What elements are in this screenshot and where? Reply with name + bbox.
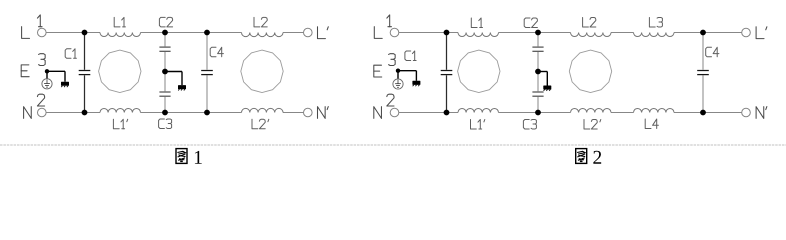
node: C4 top junction bbox=[204, 30, 210, 36]
inductor L4 bbox=[634, 108, 674, 112]
terminal E (pin 3, fig2) bbox=[374, 65, 382, 77]
capacitor C1 branch bbox=[84, 33, 86, 70]
wire mid node to ground (fig2) bbox=[538, 71, 547, 73]
node: C1 bottom junction (fig2) bbox=[444, 110, 450, 116]
inductor L2' bbox=[242, 108, 283, 112]
inductor L1 (fig2) bbox=[458, 33, 499, 37]
terminal N (pin 2, fig2) bbox=[390, 108, 399, 117]
wire top rail c2 bbox=[399, 32, 458, 34]
capacitor C2 / C3 branch wire bbox=[164, 33, 166, 47]
node: C4 top junction (fig2) bbox=[700, 30, 706, 36]
ground (E, fig1) bbox=[61, 82, 69, 86]
inductor L2' (fig2) bbox=[571, 108, 611, 112]
node: C4 bottom junction bbox=[204, 110, 210, 116]
caption figure 2 (图2) bbox=[576, 149, 587, 164]
inductor L2 bbox=[242, 33, 283, 37]
node: C1 top junction bbox=[82, 30, 88, 36]
wire bottom rail c1 bbox=[46, 112, 100, 114]
node: C1 top junction (fig2) bbox=[444, 30, 450, 36]
node: C3 bottom junction (fig2) bbox=[535, 110, 541, 116]
node: C2 top junction bbox=[162, 30, 168, 36]
terminal L' (fig2) bbox=[742, 28, 751, 37]
terminal L' bbox=[304, 28, 313, 37]
inductor L3 bbox=[634, 33, 674, 37]
capacitor C2 / C3 branch wire (fig2) bbox=[537, 33, 539, 47]
terminal N' (fig2) bbox=[742, 108, 751, 117]
node: C1 bottom junction bbox=[82, 110, 88, 116]
node: C3 bottom junction bbox=[162, 110, 168, 116]
node E dot (fig2) bbox=[396, 69, 400, 73]
inductor L2 (fig2) bbox=[571, 33, 611, 37]
earth terminal symbol bbox=[46, 71, 48, 78]
choke core circle 1 (fig2) bbox=[458, 50, 500, 92]
dashed separator line bbox=[0, 144, 786, 146]
node: Y-cap mid junction (fig2) bbox=[535, 69, 541, 75]
inductor L1' bbox=[100, 108, 141, 112]
ground (E, fig2) bbox=[412, 81, 420, 85]
capacitor C2 (fig2) bbox=[532, 47, 543, 48]
node: C2 top junction (fig2) bbox=[535, 30, 541, 36]
terminal N' bbox=[304, 108, 313, 117]
capacitor C3 (fig2) bbox=[532, 91, 543, 92]
capacitor C1 branch (fig2) bbox=[446, 33, 448, 70]
earth terminal symbol (fig2) bbox=[397, 71, 399, 79]
choke core circle 1 bbox=[99, 50, 141, 92]
terminal L (pin 1, fig2) bbox=[390, 28, 399, 37]
inductor L1' (fig2) bbox=[458, 108, 499, 112]
node E dot bbox=[45, 69, 49, 73]
ground (mid, fig1) bbox=[178, 85, 186, 89]
wire E to chassis ground bbox=[47, 70, 65, 72]
node: Y-cap mid junction bbox=[162, 69, 168, 75]
terminal E (pin 3) bbox=[21, 65, 29, 77]
terminal L (pin 1) bbox=[38, 28, 47, 37]
caption figure 1 (图1) bbox=[176, 149, 187, 164]
wire bottom rail c2 bbox=[399, 112, 458, 114]
wire E to chassis ground (fig2) bbox=[398, 70, 416, 72]
wire mid node to ground bbox=[165, 71, 182, 73]
choke core circle 2 bbox=[241, 50, 283, 92]
wire top rail c1 bbox=[46, 32, 100, 34]
capacitor C4 branch (fig2) bbox=[702, 33, 704, 70]
choke core circle 2 (fig2) bbox=[569, 50, 611, 92]
ground (mid, fig2) bbox=[543, 86, 551, 90]
capacitor C3 bbox=[159, 91, 170, 92]
capacitor C2 bbox=[159, 47, 170, 48]
inductor L1 bbox=[100, 33, 141, 37]
terminal N (pin 2) bbox=[38, 108, 47, 117]
capacitor C4 branch bbox=[206, 33, 208, 70]
node: C4 bottom junction (fig2) bbox=[700, 110, 706, 116]
